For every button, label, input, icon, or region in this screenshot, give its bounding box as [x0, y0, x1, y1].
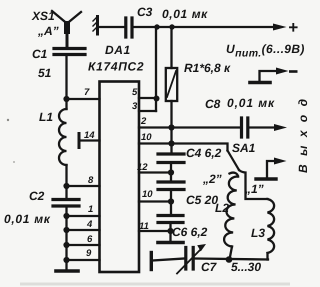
ground main — [56, 269, 78, 273]
chassis ground at C3 left — [96, 17, 99, 35]
node pin8 — [63, 183, 69, 189]
svg-text:3: 3 — [132, 101, 138, 112]
chassis ground at C7 left — [150, 253, 153, 270]
svg-text:9: 9 — [86, 248, 92, 259]
switch SA1 lever — [228, 151, 240, 171]
svg-text:5: 5 — [132, 87, 138, 98]
wire C1 down — [65, 56, 67, 99]
svg-text:С5 20: С5 20 — [186, 193, 218, 207]
capacitor C3 — [126, 18, 132, 37]
wire pin11 row — [139, 230, 171, 232]
wire pin7 — [67, 98, 100, 100]
capacitor C8 — [242, 118, 248, 137]
wire pin5 stub — [139, 97, 156, 99]
output arrow top (+) — [273, 24, 287, 31]
wire pin1 — [67, 215, 100, 217]
svg-text:С1: С1 — [32, 47, 48, 61]
wire bus below R1 — [170, 101, 172, 153]
wire C2 down — [65, 206, 67, 270]
resistor R1 — [170, 27, 172, 68]
output arrow C8 — [274, 124, 287, 131]
svg-text:7: 7 — [84, 87, 90, 98]
chassis ground under C6 — [158, 241, 183, 245]
svg-text:1: 1 — [88, 204, 93, 215]
svg-text:С3: С3 — [137, 5, 153, 19]
svg-text:L1: L1 — [39, 110, 53, 124]
wire to SA1 — [172, 144, 228, 151]
svg-text:5...30: 5...30 — [231, 260, 261, 274]
svg-text:С6 6,2: С6 6,2 — [172, 225, 208, 239]
wire lever to L2/L3 junction — [239, 170, 268, 199]
wire top rail — [99, 26, 124, 28]
capacitor C5 — [158, 182, 184, 190]
svg-text:Выход: Выход — [296, 90, 309, 173]
svg-text:10: 10 — [142, 189, 153, 200]
svg-text:„1”: „1” — [244, 182, 264, 196]
inductor L3 — [268, 199, 275, 253]
svg-text:8: 8 — [88, 175, 94, 186]
wire pin9 — [67, 259, 100, 261]
wire to L1 — [65, 99, 67, 109]
capacitor C2 — [65, 186, 67, 198]
scan smudge bottom — [20, 283, 290, 286]
wire contact1 to output arrow — [267, 161, 275, 179]
svg-text:С2: С2 — [29, 189, 45, 203]
inductor L1 — [59, 109, 67, 165]
capacitor C6 — [158, 216, 183, 223]
node pin1 — [63, 213, 69, 219]
IC DA1 К174ПС2 body — [100, 82, 140, 273]
wire pin14 — [81, 139, 100, 141]
switch contact 1 bar — [256, 177, 276, 180]
svg-text:„2”: „2” — [202, 172, 222, 186]
inductor L2 — [230, 173, 239, 177]
node L2 bottom — [226, 256, 233, 263]
wire pin2 row to C8 — [139, 126, 240, 128]
capacitor C1 — [54, 49, 85, 55]
node rail-R1 — [169, 24, 174, 29]
svg-text:К174ПС2: К174ПС2 — [88, 60, 144, 74]
svg-text:0,01 мк: 0,01 мк — [162, 7, 208, 21]
node rail-pin5 — [154, 24, 159, 29]
svg-text:12: 12 — [137, 162, 148, 173]
wire C7 arrowhead — [197, 244, 206, 251]
node pin4 — [63, 227, 69, 233]
svg-text:R1*6,8 к: R1*6,8 к — [184, 61, 231, 75]
wire pin5 vertical — [155, 27, 157, 111]
svg-text:2: 2 — [140, 116, 147, 127]
node pin7 — [63, 96, 69, 102]
wire pin4 — [67, 229, 100, 231]
svg-text:L3: L3 — [251, 226, 265, 240]
node pin6 — [63, 242, 69, 248]
svg-text:6: 6 — [87, 234, 93, 245]
wire pin8 — [67, 185, 100, 187]
svg-text:14: 14 — [84, 130, 95, 141]
svg-text:4: 4 — [86, 219, 93, 230]
svg-text:DA1: DA1 — [105, 43, 131, 57]
svg-text:10: 10 — [141, 132, 152, 143]
svg-text:С4 6,2: С4 6,2 — [186, 146, 222, 160]
minus terminal chassis — [250, 81, 270, 85]
svg-text:С7: С7 — [201, 260, 218, 274]
wire pin10b row — [139, 200, 171, 202]
pin14 chassis bar — [78, 134, 81, 148]
wire pin3 jog — [139, 110, 156, 112]
speck — [7, 119, 9, 121]
wire pin6 — [67, 244, 100, 246]
svg-text:0,01 мк: 0,01 мк — [4, 212, 51, 226]
svg-text:XS1: XS1 — [31, 9, 55, 23]
node pin3-pin5 — [154, 96, 160, 102]
output arrow minus — [276, 68, 289, 75]
svg-text:SA1: SA1 — [232, 141, 256, 155]
label minus — [289, 70, 298, 73]
capacitor C7 variable — [186, 248, 193, 270]
output arrow SA1 — [274, 158, 287, 165]
svg-text:0,01 мк: 0,01 мк — [227, 96, 275, 110]
capacitor C4 — [158, 154, 184, 163]
svg-text:51: 51 — [38, 66, 52, 80]
bottom rail — [152, 259, 184, 261]
svg-text:С8: С8 — [205, 97, 221, 111]
svg-text:+: + — [288, 18, 298, 37]
wire pin12 row — [139, 171, 171, 173]
antenna XS1 — [52, 11, 81, 24]
wire C8 to output — [250, 126, 275, 128]
wire pin10 row — [139, 142, 172, 144]
svg-text:„А”: „А” — [37, 24, 59, 38]
svg-text:L2: L2 — [215, 201, 229, 215]
svg-text:11: 11 — [139, 221, 149, 232]
node pin9 — [63, 257, 69, 263]
